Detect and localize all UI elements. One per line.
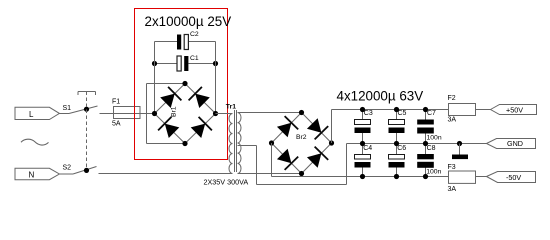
svg-text:5A: 5A bbox=[112, 121, 121, 128]
svg-text:-50V: -50V bbox=[506, 173, 521, 182]
svg-text:C1: C1 bbox=[190, 55, 199, 62]
svg-text:Tr1: Tr1 bbox=[226, 104, 236, 111]
svg-text:100n: 100n bbox=[426, 169, 441, 176]
svg-text:N: N bbox=[29, 170, 35, 179]
svg-text:4x12000µ 63V: 4x12000µ 63V bbox=[337, 89, 424, 104]
svg-text:100n: 100n bbox=[427, 135, 442, 142]
svg-text:F1: F1 bbox=[112, 98, 120, 105]
svg-text:2x10000µ 25V: 2x10000µ 25V bbox=[145, 14, 232, 29]
svg-text:3A: 3A bbox=[448, 186, 457, 193]
svg-text:C7: C7 bbox=[427, 110, 436, 117]
svg-text:C2: C2 bbox=[190, 31, 199, 38]
svg-text:C5: C5 bbox=[398, 110, 407, 117]
svg-text:S2: S2 bbox=[63, 164, 72, 171]
svg-text:C3: C3 bbox=[364, 110, 373, 117]
svg-text:Br1: Br1 bbox=[170, 106, 177, 117]
svg-text:F2: F2 bbox=[448, 95, 456, 102]
svg-text:2X35V 300VA: 2X35V 300VA bbox=[204, 178, 249, 187]
svg-text:GND: GND bbox=[507, 139, 523, 148]
svg-text:C4: C4 bbox=[363, 145, 372, 152]
svg-text:C6: C6 bbox=[397, 145, 406, 152]
svg-text:3A: 3A bbox=[448, 117, 457, 124]
svg-text:Br2: Br2 bbox=[296, 134, 307, 141]
svg-text:+50V: +50V bbox=[506, 106, 523, 115]
svg-text:L: L bbox=[29, 110, 34, 119]
svg-text:C8: C8 bbox=[427, 145, 436, 152]
svg-text:F3: F3 bbox=[448, 164, 456, 171]
svg-text:S1: S1 bbox=[63, 105, 72, 112]
